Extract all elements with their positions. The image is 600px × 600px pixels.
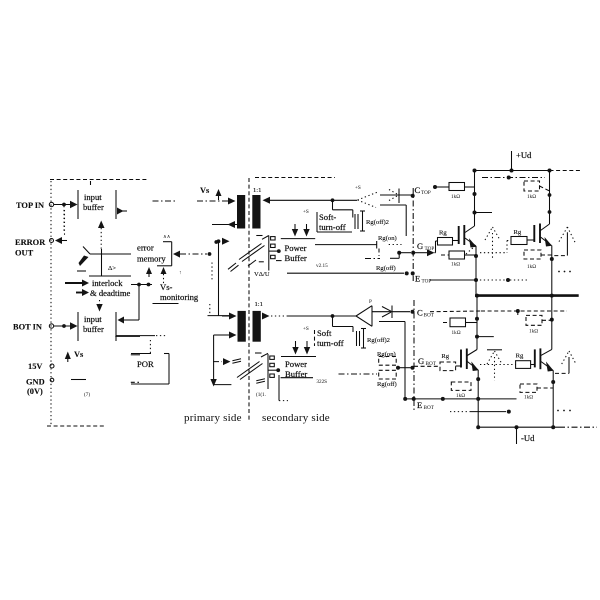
svg-text:BOT: BOT bbox=[424, 405, 435, 411]
terminal 15V bbox=[28, 362, 54, 371]
resistor Rg (Q3, dashed) bbox=[414, 353, 456, 371]
svg-text:E: E bbox=[415, 274, 420, 284]
transistor Q1 (error drive) bbox=[77, 247, 131, 277]
resistor R4 (emitter sense, Q2, dashed) bbox=[524, 250, 552, 270]
arrow into ASIC2 left bbox=[213, 358, 231, 365]
svg-text:input: input bbox=[84, 314, 102, 324]
label -Ud bbox=[517, 427, 536, 444]
freewheel diode arrow (Q3) bbox=[487, 350, 502, 381]
transformer T1 secondary winding bbox=[252, 195, 260, 229]
comparator A2 bbox=[356, 299, 372, 326]
svg-text:Rg(on): Rg(on) bbox=[378, 235, 397, 242]
svg-text:1:1: 1:1 bbox=[255, 301, 263, 308]
driver module dashed border bottom bbox=[47, 425, 106, 427]
svg-text:ERROR: ERROR bbox=[15, 238, 46, 247]
svg-text:& deadtime: & deadtime bbox=[90, 288, 131, 298]
svg-text:322S: 322S bbox=[316, 379, 327, 385]
svg-text:TOP: TOP bbox=[422, 279, 432, 285]
comparator A2 lower output down bbox=[379, 322, 405, 399]
svg-text:Rg(off): Rg(off) bbox=[377, 381, 397, 388]
svg-text:1kΩ: 1kΩ bbox=[452, 330, 461, 336]
svg-text:∧∧: ∧∧ bbox=[163, 234, 171, 240]
svg-text:Rg(off)2: Rg(off)2 bbox=[367, 337, 390, 344]
arrow up into input buffer bottom bbox=[98, 221, 105, 250]
wire interlock to bottom input buffer bbox=[118, 283, 141, 324]
DC- rail bbox=[476, 425, 597, 429]
power buffer bottom rail to E_TOP bbox=[287, 263, 415, 275]
block interlock &amp; deadtime bbox=[90, 278, 131, 298]
svg-text:GND: GND bbox=[26, 378, 45, 387]
svg-text:(0V): (0V) bbox=[27, 387, 43, 396]
svg-text:memory: memory bbox=[137, 254, 166, 264]
svg-text:POR: POR bbox=[137, 359, 154, 369]
misc wire stubs near POR bbox=[84, 336, 140, 398]
svg-text:Rg: Rg bbox=[516, 353, 524, 360]
wire TOP IN to input buffer bbox=[54, 201, 78, 208]
svg-text:interlock: interlock bbox=[92, 278, 123, 288]
resistor R2 (emitter sense, Q1) bbox=[441, 246, 476, 268]
arrow into error memory from secondary bbox=[173, 251, 211, 258]
svg-text:Power: Power bbox=[285, 243, 307, 253]
collector wire Q2 bbox=[548, 171, 552, 225]
arrows up into error memory bottom bbox=[146, 267, 167, 285]
label Vs (transformer supply) bbox=[200, 186, 222, 200]
svg-text:secondary side: secondary side bbox=[262, 412, 330, 424]
comparator A1 (dotted) bbox=[355, 185, 379, 208]
emitter wire Q3 bbox=[476, 370, 480, 427]
comparator A1 lower output wire bbox=[380, 205, 406, 236]
block Vs monitoring bbox=[153, 270, 199, 304]
svg-text:Rg(off): Rg(off) bbox=[376, 265, 396, 272]
arrows into T2 primary bbox=[222, 313, 237, 339]
svg-text:Δ>: Δ> bbox=[108, 265, 116, 272]
svg-text:turn-off: turn-off bbox=[317, 338, 344, 348]
power buffer (top) block bbox=[276, 239, 315, 263]
svg-text:1kΩ: 1kΩ bbox=[451, 194, 460, 200]
wire power buffer to Rg(on) bbox=[315, 241, 377, 249]
svg-text:monitoring: monitoring bbox=[160, 292, 199, 302]
transformer T2 primary winding bbox=[238, 311, 246, 342]
wire E_TOP sense bbox=[430, 278, 529, 282]
module boundary (bottom channel) bbox=[413, 300, 415, 412]
ASIC U1 output pins bbox=[269, 237, 281, 259]
IGBT Q2 bbox=[527, 224, 552, 247]
wire E_BOT line bbox=[403, 397, 516, 411]
svg-text:1:1: 1:1 bbox=[253, 187, 261, 194]
arrows down into power buffer 2 bbox=[292, 341, 310, 355]
error memory box bbox=[137, 234, 172, 266]
wire interlock output right bbox=[131, 283, 152, 287]
collector wire Q4 bbox=[551, 296, 553, 350]
power label Vs bbox=[65, 350, 84, 362]
node stub below TOP IN junction bbox=[63, 206, 65, 232]
svg-text:↑: ↑ bbox=[179, 270, 182, 276]
arrows down into power buffer bbox=[292, 224, 310, 237]
wire T1 secondary to comparator bbox=[263, 197, 358, 204]
secondary module dashed border top bbox=[255, 177, 335, 179]
svg-text:C: C bbox=[415, 185, 421, 195]
svg-text:Rg: Rg bbox=[514, 229, 522, 236]
node C_TOP bbox=[411, 185, 437, 198]
ASIC U1 (isolated transfer block) bbox=[228, 236, 269, 272]
dashed stubs near transformer return bbox=[210, 263, 212, 315]
wire T2 secondary to comparator 2 bbox=[262, 313, 356, 320]
svg-text:v2.15: v2.15 bbox=[316, 263, 328, 269]
wire BOT IN to input buffer bbox=[54, 322, 78, 329]
emitter wire Q2 bbox=[550, 246, 554, 295]
wire right of GND bbox=[71, 379, 86, 381]
collector wire Q1 bbox=[473, 171, 493, 227]
svg-text:1kΩ: 1kΩ bbox=[524, 395, 533, 401]
resistor R1 (collector sense, Q1) bbox=[449, 183, 475, 201]
label +Ud bbox=[512, 150, 533, 171]
svg-text:buffer: buffer bbox=[83, 202, 104, 212]
svg-text:input: input bbox=[84, 192, 102, 202]
resistor Rg(on) (top) bbox=[378, 235, 402, 256]
freewheel diode arrow (Q4) bbox=[555, 351, 576, 373]
node into ASIC U1 bbox=[214, 240, 218, 244]
emitter wire Q4 bbox=[551, 371, 555, 428]
svg-text:(7): (7) bbox=[84, 391, 90, 398]
driver module dashed border left bbox=[50, 181, 52, 425]
diode D1 bbox=[389, 189, 399, 204]
svg-text:Power: Power bbox=[285, 359, 307, 369]
wire to ERROR OUT with arrow bbox=[55, 210, 67, 244]
wire dash-dot into T1 primary bbox=[153, 198, 236, 205]
arrow into interlock bbox=[65, 280, 89, 287]
wire T1 primary bottom bbox=[212, 221, 237, 228]
emitter wire Q1 bbox=[474, 246, 478, 295]
svg-text:VΔ/U: VΔ/U bbox=[254, 271, 270, 278]
power buffer (bottom) block bbox=[279, 357, 327, 401]
terminal GND (0V) bbox=[26, 378, 54, 397]
driver module dashed border top bbox=[50, 180, 147, 186]
collector dash link to Q2 bbox=[482, 176, 545, 180]
transformer T2 secondary winding bbox=[253, 311, 261, 342]
svg-text:-Ud: -Ud bbox=[521, 433, 535, 443]
resistor R8 (emitter sense, Q4, dashed) bbox=[520, 384, 553, 401]
svg-text:P: P bbox=[369, 299, 372, 305]
svg-text:+S: +S bbox=[303, 326, 309, 332]
wire down left of ASIC2 bbox=[210, 335, 231, 387]
wire G_TOP to gate bbox=[415, 249, 435, 256]
IGBT Q1 bbox=[453, 225, 477, 248]
resistor Dg(on) (bottom) bbox=[377, 351, 396, 365]
svg-text:Rg: Rg bbox=[439, 230, 447, 237]
svg-text:TOP: TOP bbox=[421, 190, 431, 196]
wire into T2 top left bbox=[208, 315, 230, 317]
wire C_BOT sense dashed bbox=[430, 309, 567, 313]
resistor Rg(off) (bottom) bbox=[377, 370, 397, 388]
terminal BOT IN bbox=[13, 323, 54, 332]
svg-text:BOT: BOT bbox=[424, 313, 435, 319]
node C_BOT bbox=[411, 308, 435, 319]
svg-text:TOP IN: TOP IN bbox=[16, 201, 44, 210]
resistor R5 (collector sense, Q3) bbox=[443, 318, 477, 336]
label E_TOP bbox=[415, 274, 431, 285]
node G_BOT bbox=[396, 356, 437, 370]
resistor Rg (Q2) bbox=[480, 229, 527, 253]
wire primary bus vertical to transformers bbox=[217, 238, 230, 316]
resistor Rg (Q4) bbox=[480, 353, 531, 369]
wire E sense line 2 bbox=[450, 410, 511, 414]
svg-text:1kΩ: 1kΩ bbox=[527, 194, 536, 200]
svg-text:turn-off: turn-off bbox=[319, 222, 346, 232]
svg-text:1kΩ: 1kΩ bbox=[451, 262, 460, 268]
terminal ERROR OUT bbox=[15, 238, 54, 258]
transformer T1 primary winding bbox=[237, 195, 245, 229]
freewheel diode arrow (Q2) bbox=[554, 227, 575, 256]
svg-text:1kΩ: 1kΩ bbox=[529, 328, 538, 334]
wire input buffer down to interlock bbox=[101, 249, 103, 276]
continuation dots (bottom) bbox=[557, 410, 571, 412]
svg-text:Soft-: Soft- bbox=[319, 212, 336, 222]
svg-text:+Ud: +Ud bbox=[516, 150, 532, 160]
svg-text:OUT: OUT bbox=[15, 249, 34, 258]
wire C_TOP to collector resistor bbox=[437, 186, 450, 188]
diode D2 bbox=[372, 306, 410, 319]
input buffer (bottom) box bbox=[78, 312, 116, 341]
svg-text:Soft: Soft bbox=[317, 328, 332, 338]
svg-text:error: error bbox=[137, 243, 154, 253]
arrow into input buffer right side bbox=[117, 208, 127, 215]
svg-text:1kΩ: 1kΩ bbox=[456, 393, 465, 399]
wire from bottom buffer right bbox=[116, 335, 155, 337]
svg-text:buffer: buffer bbox=[83, 324, 104, 334]
input buffer (top) box bbox=[78, 190, 116, 219]
terminal TOP IN bbox=[16, 201, 54, 210]
label (U2 pins) bbox=[256, 356, 280, 398]
module boundary (top channel) bbox=[412, 188, 414, 281]
resistor R3 (collector sense, Q2, dashed) bbox=[524, 181, 550, 200]
svg-text:primary side: primary side bbox=[184, 412, 242, 424]
svg-text:+S: +S bbox=[355, 185, 361, 191]
arrow down into bottom input buffer bbox=[96, 300, 102, 312]
collector link Q4 (dashed) bbox=[518, 311, 554, 334]
resistor Rg(off)2 (bottom channel) bbox=[357, 329, 390, 349]
svg-text:C: C bbox=[417, 308, 423, 318]
node G_TOP bbox=[397, 241, 434, 255]
resistor R6 (emitter sense, Q3, dashed) bbox=[451, 382, 471, 399]
resistor Rg(off)2 (top channel) bbox=[355, 211, 389, 231]
svg-text:Vs-: Vs- bbox=[160, 282, 173, 292]
soft turn-off box (bottom) bbox=[303, 316, 353, 348]
svg-text:Vs: Vs bbox=[200, 186, 210, 195]
wire power buffer 2 to resistors bbox=[339, 373, 378, 375]
svg-text:15V: 15V bbox=[28, 362, 42, 371]
freewheel diode arrow (Q1) bbox=[485, 227, 500, 258]
svg-text:G: G bbox=[418, 356, 424, 366]
resistor Rg (Q1) bbox=[435, 230, 453, 253]
svg-text:Rg: Rg bbox=[441, 353, 449, 360]
svg-text:+S: +S bbox=[303, 209, 309, 215]
svg-text:G: G bbox=[417, 241, 423, 251]
IGBT Q3 bbox=[456, 349, 479, 372]
phase mid rail bbox=[475, 294, 579, 298]
soft turn-off box (top) bbox=[303, 200, 353, 232]
wire Rg(off) return bbox=[365, 253, 399, 272]
svg-text:Vs: Vs bbox=[74, 350, 84, 359]
svg-text:Rg(off)2: Rg(off)2 bbox=[366, 219, 389, 226]
svg-text:E: E bbox=[417, 400, 422, 410]
svg-text:Buffer: Buffer bbox=[285, 253, 307, 263]
svg-text:1kΩ: 1kΩ bbox=[527, 264, 536, 270]
collector wire Q3 bbox=[475, 296, 494, 350]
svg-text:BOT IN: BOT IN bbox=[13, 323, 42, 332]
ASIC U2 (isolated transfer block, bottom) bbox=[232, 353, 268, 389]
arrow into deadtime bbox=[76, 289, 89, 296]
POR box bbox=[131, 340, 169, 384]
comparator A1 output top wire bbox=[380, 194, 412, 196]
DC+ rail bbox=[473, 169, 582, 173]
svg-text:(1(1.: (1(1. bbox=[256, 391, 266, 398]
continuation dots (top) bbox=[558, 271, 571, 273]
IGBT Q4 bbox=[531, 348, 554, 371]
isolation boundary dashed line bbox=[248, 178, 250, 420]
